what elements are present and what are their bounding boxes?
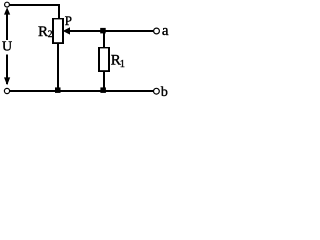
svg-text:a: a [162,23,169,39]
wire Rg bottom lead [57,44,59,91]
wire bottom (input to terminal b) [10,90,154,92]
wire R1 top lead [103,32,105,47]
voltage arrow U up head [4,7,10,14]
wire wiper to terminal a [70,30,154,32]
terminal circle top-left input [5,2,10,7]
node junction dot top (wiper wire / R1) [100,28,106,34]
terminal circle b [154,88,160,94]
node junction dot bottom right (R1 / bottom wire) [100,87,106,93]
wire top lead down into Rg [58,4,60,18]
svg-text:2: 2 [48,30,53,40]
node junction dot bottom left (Rg / bottom wire) [55,87,61,93]
resistor R1 [98,47,110,72]
voltage arrow U lower shaft [6,55,8,85]
wire top (input to potentiometer top) [10,4,61,6]
svg-text:R: R [38,24,48,40]
resistor Rg (potentiometer body) [52,18,64,44]
svg-text:1: 1 [120,59,125,70]
svg-text:U: U [2,40,12,55]
svg-text:b: b [161,85,168,98]
terminal circle bottom-left input [4,88,9,93]
wire R1 bottom lead [103,72,105,90]
terminal circle a [154,28,160,34]
voltage arrow U down head [4,77,10,85]
voltage arrow U upper shaft [6,14,8,41]
svg-text:P: P [65,13,72,28]
wiper arrow into Rg [63,27,70,34]
